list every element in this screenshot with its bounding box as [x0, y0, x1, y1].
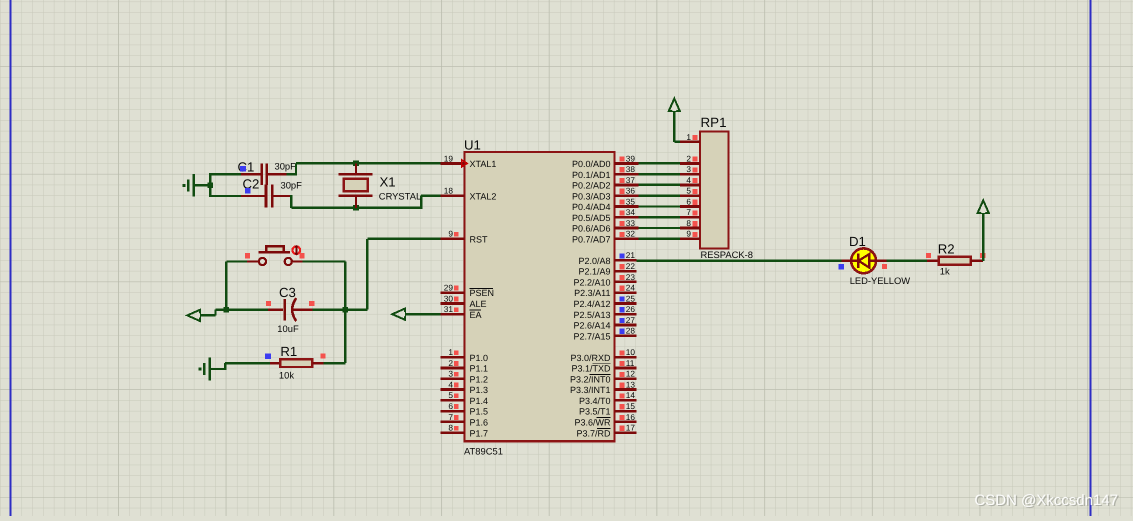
- svg-text:10k: 10k: [279, 369, 294, 380]
- pin 26 (P2.5/A13): [573, 304, 636, 320]
- wire P2.0 to D1: [637, 260, 842, 262]
- pin 3 (P1.2): [441, 369, 489, 385]
- LED D1: [842, 248, 887, 273]
- pin 32 (P0.7/AD7): [572, 229, 639, 245]
- svg-text:4: 4: [686, 175, 691, 185]
- wire vertical C1-C2 left: [209, 173, 211, 197]
- marker C2 blue: [245, 188, 251, 194]
- power arrow (C3 left): [187, 310, 200, 321]
- wire XTAL2 bottom run: [291, 207, 421, 209]
- pin 30 (ALE): [441, 293, 487, 309]
- pin 4 (P1.3): [441, 379, 489, 395]
- svg-text:12: 12: [626, 369, 636, 379]
- crystal X1: [339, 163, 373, 208]
- wire P0.0 to RP1 pin 2: [639, 162, 681, 164]
- svg-text:RST: RST: [470, 234, 489, 244]
- wire XTAL1 net: [296, 162, 441, 164]
- wire into XTAL2 pin: [421, 195, 440, 197]
- wire power to RP1 pin1 corner: [673, 111, 675, 142]
- wire into RP1 pin 1: [674, 141, 680, 143]
- svg-text:11: 11: [626, 358, 635, 368]
- svg-text:U1: U1: [464, 138, 481, 153]
- pin 13 (P3.3/INT1): [570, 379, 637, 395]
- svg-text:P1.4: P1.4: [470, 396, 489, 406]
- wire to C2 left: [210, 195, 240, 197]
- wire P0.3 to RP1 pin 5: [639, 195, 681, 197]
- power arrow (R2): [978, 200, 989, 213]
- wire P0.2 to RP1 pin 4: [639, 184, 681, 186]
- wire ground to node: [195, 184, 210, 186]
- pin 19 (XTAL1): [441, 153, 497, 169]
- svg-text:2: 2: [448, 358, 453, 368]
- svg-text:P2.4/A12: P2.4/A12: [573, 299, 610, 309]
- svg-text:P3.2/INT0: P3.2/INT0: [570, 374, 611, 384]
- pin 7 (RP1): [680, 207, 700, 217]
- wire P0.5 to RP1 pin 7: [639, 216, 681, 218]
- svg-text:14: 14: [626, 390, 636, 400]
- pin 16 (P3.6/WR): [574, 412, 636, 428]
- pin 17 (P3.7/RD): [576, 423, 636, 439]
- capacitor C1: [241, 163, 287, 185]
- svg-text:X1: X1: [380, 175, 396, 190]
- marker D1 blue: [839, 264, 844, 269]
- pin 14 (P3.4/T0): [579, 390, 637, 406]
- svg-text:P2.1/A9: P2.1/A9: [578, 267, 610, 277]
- wire P0.4 to RP1 pin 6: [639, 205, 681, 207]
- svg-text:13: 13: [626, 379, 636, 389]
- svg-text:P0.5/AD5: P0.5/AD5: [572, 213, 611, 223]
- svg-text:39: 39: [626, 153, 636, 163]
- svg-text:P2.7/A15: P2.7/A15: [573, 331, 610, 341]
- svg-text:1k: 1k: [940, 265, 950, 276]
- wire step up to XTAL1 net: [295, 163, 297, 175]
- pin 38 (P0.1/AD1): [572, 164, 639, 180]
- pin 9 (RP1): [680, 229, 700, 239]
- svg-text:18: 18: [444, 186, 454, 196]
- wire P0.6 to RP1 pin 8: [639, 227, 681, 229]
- junction crystal top: [353, 161, 359, 167]
- wire C3 right to RST corner: [313, 308, 368, 310]
- wire step up to R1 row: [224, 363, 226, 370]
- wire P0.7 to RP1 pin 9: [639, 238, 681, 240]
- svg-text:19: 19: [444, 153, 454, 163]
- svg-text:10uF: 10uF: [277, 323, 299, 334]
- pin 18 (XTAL2): [441, 186, 497, 202]
- svg-text:26: 26: [626, 304, 636, 314]
- pin 37 (P0.2/AD2): [572, 175, 639, 191]
- svg-text:32: 32: [626, 229, 636, 239]
- marker XTAL1 pin diamond: [462, 160, 467, 167]
- svg-text:P3.7/RD: P3.7/RD: [576, 428, 611, 438]
- svg-text:C3: C3: [279, 285, 296, 300]
- svg-text:38: 38: [626, 164, 636, 174]
- svg-text:P1.1: P1.1: [470, 364, 489, 374]
- capacitor C2: [241, 185, 290, 208]
- svg-text:31: 31: [444, 304, 454, 314]
- svg-text:23: 23: [626, 272, 636, 282]
- marker switch actuator target: [293, 245, 301, 256]
- svg-text:27: 27: [626, 315, 636, 325]
- svg-text:36: 36: [626, 186, 636, 196]
- svg-text:7: 7: [686, 207, 691, 217]
- svg-text:4: 4: [448, 379, 453, 389]
- marker switch left red: [245, 253, 250, 258]
- svg-text:1: 1: [686, 132, 691, 142]
- svg-text:P1.6: P1.6: [470, 417, 489, 427]
- svg-text:P0.4/AD4: P0.4/AD4: [572, 202, 611, 212]
- sheet border left: [10, 0, 12, 516]
- junction crystal bottom: [353, 205, 359, 211]
- svg-text:9: 9: [686, 229, 691, 239]
- svg-text:EA: EA: [470, 310, 482, 320]
- power arrow (RP1): [669, 99, 680, 112]
- svg-text:P0.0/AD0: P0.0/AD0: [572, 159, 611, 169]
- svg-text:P0.7/AD7: P0.7/AD7: [572, 234, 611, 244]
- pin 33 (P0.6/AD6): [572, 218, 639, 234]
- svg-text:5: 5: [686, 186, 691, 196]
- wire riser to RST: [366, 239, 368, 310]
- svg-text:6: 6: [448, 401, 453, 411]
- ground (oscillator): [183, 174, 194, 197]
- pin 5 (P1.4): [441, 390, 489, 406]
- wire D1 to R2: [887, 260, 928, 262]
- svg-text:RESPACK-8: RESPACK-8: [701, 249, 753, 260]
- svg-text:P0.3/AD3: P0.3/AD3: [572, 191, 611, 201]
- pin 2 (RP1): [680, 153, 700, 163]
- svg-text:D1: D1: [849, 234, 866, 249]
- svg-text:CSDN @Xkccsdn147: CSDN @Xkccsdn147: [974, 492, 1118, 509]
- wire into RST pin: [367, 238, 440, 240]
- svg-text:16: 16: [626, 412, 636, 422]
- wire C2 right: [290, 195, 291, 197]
- svg-text:9: 9: [448, 229, 453, 239]
- wire step up to XTAL2: [420, 196, 422, 209]
- wire R2 up to power: [982, 213, 984, 261]
- resistor R1 10k: [270, 359, 324, 367]
- svg-text:8: 8: [686, 218, 691, 228]
- junction C3 left node: [224, 307, 230, 313]
- pin 3 (RP1): [680, 164, 700, 174]
- pin 23 (P2.2/A10): [573, 272, 636, 288]
- svg-text:P3.1/TXD: P3.1/TXD: [571, 364, 611, 374]
- svg-text:P2.3/A11: P2.3/A11: [574, 288, 610, 298]
- wire into R1: [225, 362, 270, 364]
- pin 39 (P0.0/AD0): [572, 153, 639, 169]
- pin 34 (P0.5/AD5): [572, 207, 639, 223]
- svg-text:XTAL1: XTAL1: [470, 159, 497, 169]
- pin 8 (RP1): [680, 218, 700, 228]
- marker C3 left red: [266, 301, 271, 306]
- svg-text:17: 17: [626, 423, 636, 433]
- svg-text:LED-YELLOW: LED-YELLOW: [850, 275, 911, 286]
- svg-text:28: 28: [626, 326, 636, 336]
- resistor pack RP1 body: [700, 132, 729, 249]
- pin 21 (P2.0/A8): [578, 250, 636, 266]
- svg-text:3: 3: [686, 164, 691, 174]
- pin 11 (P3.1/TXD): [571, 358, 636, 374]
- ground (reset): [199, 358, 210, 381]
- svg-text:P2.2/A10: P2.2/A10: [573, 277, 610, 287]
- svg-text:24: 24: [626, 283, 636, 293]
- svg-text:ALE: ALE: [470, 299, 487, 309]
- wire step up: [214, 310, 216, 316]
- pin 28 (P2.7/A15): [573, 326, 636, 342]
- wire step down from C2: [290, 195, 292, 208]
- svg-text:8: 8: [448, 423, 453, 433]
- pin 1 (P1.0): [441, 347, 489, 363]
- junction reset node: [343, 307, 349, 313]
- svg-text:30pF: 30pF: [281, 179, 303, 190]
- svg-text:P0.1/AD1: P0.1/AD1: [572, 170, 611, 180]
- svg-text:30: 30: [444, 293, 454, 303]
- svg-text:3: 3: [448, 369, 453, 379]
- marker R1 red: [320, 354, 325, 359]
- svg-text:7: 7: [448, 412, 453, 422]
- svg-text:5: 5: [448, 390, 453, 400]
- wire down to R1: [344, 311, 346, 363]
- svg-text:2: 2: [686, 153, 691, 163]
- marker C3 right red: [309, 301, 314, 306]
- svg-text:P1.3: P1.3: [470, 385, 489, 395]
- svg-text:21: 21: [626, 250, 636, 260]
- svg-text:P0.6/AD6: P0.6/AD6: [572, 224, 611, 234]
- pin 27 (P2.6/A14): [573, 315, 636, 331]
- IC U1 body (AT89C51 microcontroller): [465, 152, 615, 441]
- svg-text:CRYSTAL: CRYSTAL: [379, 190, 421, 201]
- wire into EA pin: [405, 313, 441, 315]
- svg-text:P1.0: P1.0: [470, 353, 489, 363]
- svg-text:P2.0/A8: P2.0/A8: [578, 256, 610, 266]
- pin 5 (RP1): [680, 186, 700, 196]
- svg-text:PSEN: PSEN: [470, 288, 495, 298]
- wire ground to step: [211, 368, 225, 370]
- wire riser to switch left: [225, 262, 227, 309]
- wire arrow to step: [200, 314, 216, 316]
- svg-text:15: 15: [626, 401, 636, 411]
- marker R2 left red: [926, 253, 931, 258]
- svg-text:P0.2/AD2: P0.2/AD2: [572, 181, 611, 191]
- pin 9 (RST): [441, 229, 489, 245]
- wire down to C3 node: [344, 262, 346, 310]
- svg-text:29: 29: [444, 283, 454, 293]
- resistor R2 1k: [927, 257, 983, 265]
- junction oscillator ground node: [208, 183, 214, 189]
- svg-text:P3.4/T0: P3.4/T0: [579, 396, 611, 406]
- marker R2 right red: [980, 253, 985, 258]
- svg-text:30pF: 30pF: [275, 161, 297, 172]
- wire C1 right: [287, 173, 296, 175]
- svg-text:P1.7: P1.7: [470, 428, 489, 438]
- svg-text:P3.6/WR: P3.6/WR: [574, 417, 611, 427]
- svg-text:C1: C1: [238, 160, 255, 175]
- wire switch right: [303, 260, 346, 262]
- pin 4 (RP1): [680, 175, 700, 185]
- pin 36 (P0.3/AD3): [572, 186, 639, 202]
- svg-text:25: 25: [626, 293, 636, 303]
- pin 6 (RP1): [680, 196, 700, 206]
- pin 10 (P3.0/RXD): [570, 347, 636, 363]
- pin 25 (P2.4/A12): [573, 293, 636, 309]
- wire to C1 left: [210, 173, 240, 175]
- svg-text:R2: R2: [938, 242, 955, 257]
- svg-text:6: 6: [686, 196, 691, 206]
- marker D1 red: [882, 264, 887, 269]
- svg-text:P2.5/A13: P2.5/A13: [573, 310, 610, 320]
- svg-text:37: 37: [626, 175, 636, 185]
- svg-text:33: 33: [626, 218, 636, 228]
- pin 1 (RP1): [680, 132, 700, 142]
- power arrow (EA): [392, 309, 405, 320]
- svg-text:XTAL2: XTAL2: [470, 191, 497, 201]
- svg-text:RP1: RP1: [701, 115, 727, 130]
- svg-text:P1.5: P1.5: [470, 407, 489, 417]
- marker C1 blue: [240, 166, 246, 172]
- svg-text:R1: R1: [280, 344, 297, 359]
- pin 29 (PSEN): [441, 283, 495, 299]
- svg-text:P2.6/A14: P2.6/A14: [573, 321, 610, 331]
- svg-text:P3.3/INT1: P3.3/INT1: [570, 385, 611, 395]
- wire to switch: [226, 260, 247, 262]
- svg-text:AT89C51: AT89C51: [464, 446, 503, 457]
- capacitor C3 10uF: [268, 298, 312, 321]
- wire into C3: [216, 308, 269, 310]
- pin 8 (P1.7): [441, 423, 489, 439]
- pin 7 (P1.6): [441, 412, 489, 428]
- svg-text:22: 22: [626, 261, 636, 271]
- sheet border right: [1090, 0, 1092, 516]
- pin 31 (EA): [441, 304, 482, 320]
- svg-text:P3.0/RXD: P3.0/RXD: [570, 353, 611, 363]
- pin 22 (P2.1/A9): [578, 261, 636, 277]
- marker switch right red: [299, 253, 304, 258]
- pin 12 (P3.2/INT0): [570, 369, 637, 385]
- marker R1 blue: [265, 354, 271, 360]
- pin 24 (P2.3/A11): [574, 283, 637, 299]
- pin 2 (P1.1): [441, 358, 489, 374]
- svg-text:1: 1: [448, 347, 453, 357]
- pin 6 (P1.5): [441, 401, 489, 417]
- pin 35 (P0.4/AD4): [572, 196, 639, 212]
- wire P0.1 to RP1 pin 3: [639, 173, 681, 175]
- push button switch: [247, 246, 303, 265]
- wire R1 right to riser: [324, 362, 346, 364]
- svg-text:P1.2: P1.2: [470, 374, 489, 384]
- pin 15 (P3.5/T1): [579, 401, 637, 417]
- svg-text:34: 34: [626, 207, 636, 217]
- svg-text:P3.5/T1: P3.5/T1: [579, 407, 611, 417]
- svg-text:10: 10: [626, 347, 636, 357]
- svg-text:35: 35: [626, 196, 636, 206]
